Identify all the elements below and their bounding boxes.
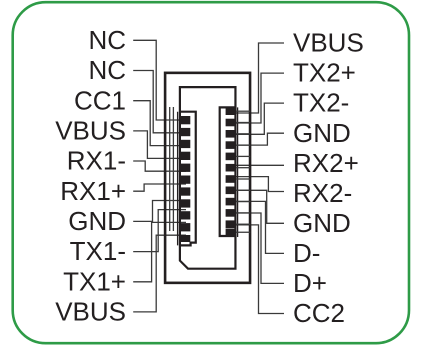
label D+ xyxy=(293,268,327,298)
svg-text:TX2-: TX2- xyxy=(293,88,349,118)
pin B10 tick xyxy=(236,212,250,214)
pin A2 xyxy=(180,128,191,136)
pin A5 xyxy=(180,164,191,172)
label TX2- xyxy=(293,88,349,118)
pin B9 xyxy=(226,198,237,206)
label VBUS left lower xyxy=(55,297,126,327)
svg-text:TX1-: TX1- xyxy=(70,236,126,266)
rail left inner 2 xyxy=(172,107,174,231)
wire D- leader xyxy=(236,201,284,253)
pin B3 xyxy=(226,130,237,138)
svg-text:D-: D- xyxy=(293,238,320,268)
pin A3 xyxy=(180,140,191,148)
label GND right lower xyxy=(293,208,351,238)
svg-text:TX1+: TX1+ xyxy=(63,266,126,296)
pin B8 tick xyxy=(236,189,250,191)
label RX2+ xyxy=(293,148,359,178)
pin A11 xyxy=(180,235,191,242)
wire RX1- leader xyxy=(133,161,186,171)
pin B1 xyxy=(226,107,237,115)
wire TX2- leader xyxy=(236,103,284,134)
label VBUS left upper xyxy=(55,116,126,146)
svg-text:NC: NC xyxy=(88,55,126,85)
wire D+ leader xyxy=(236,213,284,283)
wire RX1+ leader xyxy=(133,184,186,191)
label VBUS right xyxy=(293,28,364,58)
svg-text:CC1: CC1 xyxy=(74,85,126,115)
pin B12 xyxy=(226,229,237,237)
label GND right upper xyxy=(293,118,351,148)
pin B6 tick xyxy=(236,167,250,169)
label NC pin A2 xyxy=(88,55,126,85)
svg-text:RX2-: RX2- xyxy=(293,178,352,208)
label RX1+ xyxy=(60,176,126,206)
wire TX1- leader xyxy=(133,210,186,252)
svg-text:GND: GND xyxy=(293,208,351,238)
svg-text:CC2: CC2 xyxy=(293,298,345,328)
wire NC1 leader xyxy=(133,40,186,120)
svg-text:VBUS: VBUS xyxy=(55,116,126,146)
pin A8 xyxy=(180,199,191,207)
pin B9 tick xyxy=(236,201,250,203)
pin A7 xyxy=(180,187,191,195)
wire RX2- leader xyxy=(236,177,284,192)
pin A6 xyxy=(180,176,191,184)
left pin strip xyxy=(178,112,196,246)
wire GND-left leader xyxy=(133,201,186,222)
svg-text:RX1+: RX1+ xyxy=(60,176,126,206)
label NC pin A1 xyxy=(88,25,126,55)
right pin strip xyxy=(220,107,238,237)
wire TX1+ leader xyxy=(133,222,186,281)
wire VBUS10 leader xyxy=(133,235,186,312)
pin B4 tick xyxy=(236,144,250,146)
label RX1- xyxy=(67,146,126,176)
wire NC2 leader xyxy=(133,71,186,133)
wire CC1 leader xyxy=(133,101,186,146)
label GND left xyxy=(68,206,126,236)
label TX1+ xyxy=(63,266,126,296)
label RX2- xyxy=(293,178,352,208)
svg-text:TX2+: TX2+ xyxy=(293,58,356,88)
pin B8 xyxy=(226,187,237,195)
svg-text:RX1-: RX1- xyxy=(67,146,126,176)
connector cavity xyxy=(180,87,236,269)
svg-text:VBUS: VBUS xyxy=(55,297,126,327)
pin B7 tick xyxy=(236,178,250,180)
pin B5 xyxy=(226,153,237,161)
pin A4 xyxy=(180,152,191,160)
pin B6 xyxy=(226,164,237,172)
svg-text:D+: D+ xyxy=(293,268,327,298)
label CC1 xyxy=(74,85,126,115)
wire GND-r2 leader xyxy=(236,190,284,223)
svg-text:RX2+: RX2+ xyxy=(293,148,359,178)
svg-text:GND: GND xyxy=(293,118,351,148)
pin B12 tick xyxy=(236,231,250,233)
pin B5 tick xyxy=(236,155,250,157)
wire RX2+ leader xyxy=(236,164,284,166)
wire CC2 leader xyxy=(236,225,284,314)
svg-text:GND: GND xyxy=(68,206,126,236)
svg-text:NC: NC xyxy=(88,25,126,55)
pin B10 xyxy=(226,209,237,217)
pin B2 tick xyxy=(236,122,250,124)
pin B7 xyxy=(226,175,237,183)
label TX1- xyxy=(70,236,126,266)
wire VBUS-right leader xyxy=(236,43,284,113)
rail left inner 1 xyxy=(169,107,171,231)
wire TX2+ leader xyxy=(236,73,284,123)
label D- xyxy=(293,238,320,268)
pin B11 xyxy=(226,220,237,228)
label CC2 xyxy=(293,298,345,328)
svg-text:VBUS: VBUS xyxy=(293,28,364,58)
pin A9 xyxy=(180,211,191,219)
wire GND-r1 leader xyxy=(236,133,284,145)
wire VBUS4 leader xyxy=(133,131,186,159)
label TX2+ xyxy=(293,58,356,88)
pin A1 xyxy=(180,116,191,124)
pin B11 tick xyxy=(236,223,250,225)
pin B2 xyxy=(226,119,237,127)
pin B4 xyxy=(226,141,237,149)
pin B3 tick xyxy=(236,133,250,135)
connector shell xyxy=(165,73,250,283)
pin B1 tick xyxy=(236,110,250,112)
pin A10 xyxy=(180,223,191,231)
